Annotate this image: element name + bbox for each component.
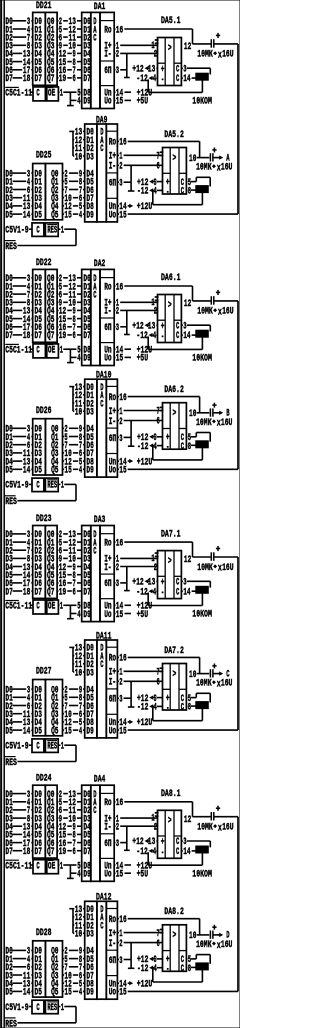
svg-text:OE: OE <box>48 89 55 100</box>
svg-text:-: - <box>161 588 164 599</box>
svg-text:C5C1-11: C5C1-11 <box>5 602 32 613</box>
svg-text:1: 1 <box>60 861 63 872</box>
svg-text:DD23: DD23 <box>36 514 52 525</box>
svg-text:3: 3 <box>119 956 122 967</box>
svg-text:6: 6 <box>73 587 76 598</box>
svg-text:>: > <box>168 43 172 54</box>
svg-text:19: 19 <box>59 587 66 598</box>
svg-text:C: C <box>36 481 39 492</box>
svg-text:16U: 16U <box>222 50 234 61</box>
svg-text:Q5: Q5 <box>51 726 58 737</box>
svg-text:3: 3 <box>116 579 119 590</box>
svg-text:4: 4 <box>79 726 82 737</box>
svg-text:+12U: +12U <box>137 202 153 213</box>
svg-text:C: C <box>181 187 184 198</box>
svg-text:4: 4 <box>79 210 82 221</box>
svg-text:Ro: Ro <box>109 393 116 404</box>
svg-text:D9: D9 <box>83 610 90 621</box>
svg-text:D3: D3 <box>86 408 93 419</box>
svg-text:Q5: Q5 <box>51 466 58 477</box>
svg-text:DA7.1: DA7.1 <box>161 529 181 540</box>
svg-text:10КОМ: 10КОМ <box>192 97 212 108</box>
svg-text:C: C <box>36 602 39 613</box>
svg-text:Q5: Q5 <box>51 988 58 999</box>
svg-text:2: 2 <box>154 307 157 318</box>
svg-text:8: 8 <box>188 703 191 714</box>
svg-text:D7: D7 <box>35 847 42 858</box>
svg-text:10: 10 <box>75 152 82 163</box>
svg-text:12: 12 <box>184 299 191 310</box>
svg-text:I-: I- <box>104 823 111 834</box>
svg-text:4: 4 <box>154 703 157 714</box>
svg-text:3: 3 <box>116 839 119 850</box>
svg-text:16U: 16U <box>222 563 234 574</box>
svg-text:Q7: Q7 <box>47 74 54 85</box>
svg-text:10МК: 10МК <box>196 418 212 429</box>
svg-text:14: 14 <box>23 988 30 999</box>
svg-text:D7: D7 <box>83 331 90 342</box>
svg-text:10МК: 10МК <box>196 679 212 690</box>
svg-text:8: 8 <box>188 442 191 453</box>
svg-text:DD21: DD21 <box>36 1 52 12</box>
svg-text:16: 16 <box>119 654 126 665</box>
svg-text:4: 4 <box>153 587 156 598</box>
svg-text:Q7: Q7 <box>47 331 54 342</box>
svg-text:OE: OE <box>48 861 55 872</box>
svg-text:C: C <box>93 547 96 558</box>
svg-text:8: 8 <box>188 964 191 975</box>
svg-text:2: 2 <box>154 563 157 574</box>
svg-text:2: 2 <box>119 678 122 689</box>
svg-text:15: 15 <box>116 354 123 365</box>
svg-text:>: > <box>173 669 177 680</box>
svg-text:DA6.2: DA6.2 <box>164 385 184 396</box>
svg-text:6: 6 <box>73 74 76 85</box>
svg-text:-12: -12 <box>137 442 148 453</box>
svg-text:6П: 6П <box>104 66 111 77</box>
svg-text:6П: 6П <box>109 179 116 190</box>
svg-text:D9: D9 <box>86 210 93 221</box>
svg-text:C: C <box>100 399 103 410</box>
svg-text:D5: D5 <box>5 988 12 999</box>
svg-text:19: 19 <box>59 847 66 858</box>
svg-text:15: 15 <box>116 610 123 621</box>
svg-text:>: > <box>173 931 177 942</box>
svg-text:DA8.1: DA8.1 <box>161 789 181 800</box>
svg-text:RES: RES <box>47 742 57 753</box>
svg-text:6П: 6П <box>104 839 111 850</box>
svg-text:16U: 16U <box>222 823 234 834</box>
svg-text:-: - <box>161 848 164 859</box>
svg-text:4: 4 <box>77 610 80 621</box>
svg-text:10: 10 <box>75 668 82 679</box>
svg-text:3: 3 <box>116 323 119 334</box>
svg-text:+12U: +12U <box>137 457 153 468</box>
svg-text:C: C <box>93 290 96 301</box>
svg-text:2: 2 <box>116 823 119 834</box>
svg-text:I-: I- <box>104 563 111 574</box>
svg-text:Uo: Uo <box>104 97 111 108</box>
svg-text:I-: I- <box>109 162 116 173</box>
svg-text:10МК: 10МК <box>197 563 213 574</box>
svg-text:C: C <box>100 921 103 932</box>
svg-text:DA5.2: DA5.2 <box>164 130 184 141</box>
svg-text:4: 4 <box>77 354 80 365</box>
svg-text:-: - <box>166 443 169 454</box>
svg-text:D5: D5 <box>35 988 42 999</box>
svg-text:DA3: DA3 <box>94 515 105 526</box>
svg-text:-12: -12 <box>136 587 147 598</box>
svg-text:2: 2 <box>119 162 122 173</box>
svg-text:14: 14 <box>23 726 30 737</box>
svg-text:D9: D9 <box>83 870 90 881</box>
svg-text:2: 2 <box>116 307 119 318</box>
svg-text:D5: D5 <box>5 466 12 477</box>
svg-text:D3: D3 <box>86 668 93 679</box>
svg-text:>: > <box>168 816 172 827</box>
svg-text:4: 4 <box>154 964 157 975</box>
svg-text:10МК: 10МК <box>197 307 213 318</box>
svg-text:C: C <box>93 806 96 817</box>
svg-text:15: 15 <box>119 726 126 737</box>
svg-text:C5V1-9: C5V1-9 <box>5 481 28 492</box>
svg-text:10МК: 10МК <box>196 940 212 951</box>
svg-text:14: 14 <box>23 466 30 477</box>
svg-text:2: 2 <box>116 563 119 574</box>
svg-text:Q7: Q7 <box>47 847 54 858</box>
svg-text:19: 19 <box>59 331 66 342</box>
svg-text:D7: D7 <box>35 331 42 342</box>
svg-text:6П: 6П <box>104 579 111 590</box>
svg-text:3: 3 <box>119 179 122 190</box>
svg-text:DD27: DD27 <box>36 667 52 678</box>
svg-text:10МК: 10МК <box>196 163 212 174</box>
svg-text:6: 6 <box>73 331 76 342</box>
svg-text:16: 16 <box>116 538 123 549</box>
svg-text:>: > <box>173 153 177 164</box>
svg-text:-12: -12 <box>137 964 148 975</box>
svg-text:DD26: DD26 <box>36 406 52 417</box>
svg-text:DA2: DA2 <box>94 259 105 270</box>
svg-text:C: C <box>176 847 179 858</box>
svg-text:C: C <box>100 144 103 155</box>
svg-text:4: 4 <box>153 331 156 342</box>
svg-text:>: > <box>168 556 172 567</box>
svg-text:15: 15 <box>116 97 123 108</box>
svg-text:C: C <box>176 587 179 598</box>
svg-text:16U: 16U <box>222 307 234 318</box>
svg-text:C: C <box>36 1003 39 1014</box>
svg-text:I-: I- <box>104 50 111 61</box>
svg-text:RES: RES <box>5 242 17 253</box>
svg-text:10МК: 10МК <box>197 50 213 61</box>
svg-text:10: 10 <box>75 930 82 941</box>
svg-text:C: C <box>36 742 39 753</box>
svg-text:10КОМ: 10КОМ <box>192 610 212 621</box>
svg-text:C5V1-9: C5V1-9 <box>5 1003 28 1014</box>
svg-text:-: - <box>161 75 164 86</box>
svg-text:C: C <box>93 33 96 44</box>
svg-text:RES: RES <box>5 1019 17 1028</box>
svg-text:Uo: Uo <box>104 870 111 881</box>
svg-text:15: 15 <box>119 466 126 477</box>
svg-text:14: 14 <box>183 847 190 858</box>
svg-text:2: 2 <box>119 939 122 950</box>
svg-text:Ro: Ro <box>104 538 111 549</box>
svg-text:12: 12 <box>184 555 191 566</box>
svg-text:12: 12 <box>184 42 191 53</box>
svg-text:D7: D7 <box>35 74 42 85</box>
svg-text:D9: D9 <box>86 726 93 737</box>
svg-text:6П: 6П <box>109 695 116 706</box>
svg-text:16: 16 <box>119 393 126 404</box>
svg-text:10КОМ: 10КОМ <box>192 869 212 880</box>
svg-text:16: 16 <box>116 282 123 293</box>
svg-text:-12: -12 <box>136 74 147 85</box>
svg-text:8: 8 <box>188 187 191 198</box>
svg-text:1: 1 <box>60 89 63 100</box>
svg-text:I-: I- <box>104 307 111 318</box>
svg-text:>: > <box>168 300 172 311</box>
svg-text:15: 15 <box>116 870 123 881</box>
svg-text:3: 3 <box>119 695 122 706</box>
svg-text:16U: 16U <box>221 163 233 174</box>
svg-text:-12: -12 <box>137 703 148 714</box>
svg-text:1: 1 <box>61 481 64 492</box>
svg-text:Uo: Uo <box>109 726 116 737</box>
svg-text:+5U: +5U <box>137 97 148 108</box>
svg-text:Uo: Uo <box>104 354 111 365</box>
svg-text:19: 19 <box>59 74 66 85</box>
svg-text:Uo: Uo <box>104 610 111 621</box>
svg-text:+5U: +5U <box>137 870 148 881</box>
svg-text:Uo: Uo <box>109 988 116 999</box>
svg-text:-12: -12 <box>137 187 148 198</box>
svg-text:18: 18 <box>23 74 30 85</box>
svg-text:RES: RES <box>47 1003 57 1014</box>
svg-text:Ro: Ro <box>109 915 116 926</box>
svg-text:D7: D7 <box>5 74 12 85</box>
svg-text:18: 18 <box>23 847 30 858</box>
svg-text:D3: D3 <box>86 930 93 941</box>
svg-text:4: 4 <box>154 442 157 453</box>
svg-text:16U: 16U <box>221 418 233 429</box>
svg-text:DD24: DD24 <box>36 774 52 785</box>
svg-text:12: 12 <box>184 815 191 826</box>
svg-text:2: 2 <box>116 50 119 61</box>
svg-text:14: 14 <box>183 74 190 85</box>
svg-text:14: 14 <box>23 210 30 221</box>
svg-text:1: 1 <box>60 346 63 357</box>
svg-text:15: 15 <box>64 210 71 221</box>
svg-text:16: 16 <box>116 25 123 36</box>
svg-text:10КОМ: 10КОМ <box>192 354 212 365</box>
svg-text:16U: 16U <box>221 940 233 951</box>
svg-text:14: 14 <box>183 331 190 342</box>
svg-text:18: 18 <box>23 587 30 598</box>
svg-text:I-: I- <box>109 678 116 689</box>
svg-text:6П: 6П <box>109 434 116 445</box>
svg-text:Uo: Uo <box>109 210 116 221</box>
svg-text:15: 15 <box>64 466 71 477</box>
svg-text:Ro: Ro <box>109 654 116 665</box>
svg-text:16: 16 <box>116 798 123 809</box>
svg-text:2: 2 <box>154 50 157 61</box>
svg-text:-: - <box>166 703 169 714</box>
svg-text:D9: D9 <box>86 988 93 999</box>
svg-text:-: - <box>166 187 169 198</box>
svg-text:D9: D9 <box>83 354 90 365</box>
svg-text:DA6.1: DA6.1 <box>161 273 181 284</box>
svg-text:1: 1 <box>60 602 63 613</box>
svg-text:C: C <box>181 442 184 453</box>
svg-text:Ro: Ro <box>109 138 116 149</box>
svg-text:15: 15 <box>64 726 71 737</box>
svg-text:>: > <box>173 409 177 420</box>
svg-text:Ro: Ro <box>104 798 111 809</box>
svg-text:16: 16 <box>119 138 126 149</box>
svg-text:C5C1-11: C5C1-11 <box>5 346 32 357</box>
svg-text:18: 18 <box>23 331 30 342</box>
svg-text:6: 6 <box>157 417 160 428</box>
svg-text:C: C <box>36 226 39 237</box>
svg-text:D5: D5 <box>35 466 42 477</box>
svg-text:DD22: DD22 <box>36 258 52 269</box>
svg-text:+5U: +5U <box>137 354 148 365</box>
svg-text:6: 6 <box>157 162 160 173</box>
svg-text:+5U: +5U <box>137 610 148 621</box>
svg-text:+12U: +12U <box>137 718 153 729</box>
svg-text:6П: 6П <box>109 956 116 967</box>
svg-text:6: 6 <box>157 939 160 950</box>
svg-text:D5: D5 <box>35 210 42 221</box>
svg-text:C: C <box>36 346 39 357</box>
svg-text:16: 16 <box>119 915 126 926</box>
svg-text:D9: D9 <box>86 466 93 477</box>
svg-text:Q5: Q5 <box>51 210 58 221</box>
svg-text:Q7: Q7 <box>47 587 54 598</box>
svg-text:D7: D7 <box>5 587 12 598</box>
svg-text:4: 4 <box>154 187 157 198</box>
svg-text:D5: D5 <box>35 726 42 737</box>
svg-text:D5: D5 <box>5 210 12 221</box>
svg-text:10: 10 <box>75 408 82 419</box>
svg-text:C: C <box>100 660 103 671</box>
svg-text:2: 2 <box>119 417 122 428</box>
svg-text:D7: D7 <box>83 587 90 598</box>
svg-text:15: 15 <box>119 210 126 221</box>
svg-text:14: 14 <box>183 587 190 598</box>
svg-text:DA5.1: DA5.1 <box>161 16 181 27</box>
svg-text:DA1: DA1 <box>94 2 105 13</box>
svg-text:RES: RES <box>47 226 57 237</box>
svg-text:-12: -12 <box>136 331 147 342</box>
svg-text:D7: D7 <box>83 74 90 85</box>
svg-text:4: 4 <box>153 847 156 858</box>
svg-text:C: C <box>181 964 184 975</box>
svg-text:C5C1-11: C5C1-11 <box>5 89 32 100</box>
svg-text:-12: -12 <box>136 847 147 858</box>
svg-text:OE: OE <box>48 602 55 613</box>
svg-text:I-: I- <box>109 417 116 428</box>
svg-text:1: 1 <box>61 1003 64 1014</box>
svg-text:-: - <box>166 965 169 976</box>
svg-text:15: 15 <box>64 988 71 999</box>
svg-text:OE: OE <box>48 346 55 357</box>
svg-text:3: 3 <box>116 66 119 77</box>
svg-text:I-: I- <box>109 939 116 950</box>
svg-text:D5: D5 <box>5 726 12 737</box>
svg-text:-: - <box>161 332 164 343</box>
svg-text:3: 3 <box>119 434 122 445</box>
svg-text:D7: D7 <box>5 331 12 342</box>
svg-text:DD25: DD25 <box>36 151 52 162</box>
svg-text:RES: RES <box>5 758 17 769</box>
svg-text:16U: 16U <box>221 679 233 690</box>
svg-text:Ro: Ro <box>104 282 111 293</box>
svg-text:4: 4 <box>79 988 82 999</box>
svg-text:+12U: +12U <box>137 980 153 991</box>
svg-text:6: 6 <box>73 847 76 858</box>
svg-text:4: 4 <box>79 466 82 477</box>
svg-text:DA7.2: DA7.2 <box>164 646 184 657</box>
svg-text:D7: D7 <box>83 847 90 858</box>
svg-text:D3: D3 <box>86 152 93 163</box>
svg-text:2: 2 <box>154 823 157 834</box>
svg-text:1: 1 <box>61 226 64 237</box>
svg-text:6П: 6П <box>104 323 111 334</box>
svg-text:C: C <box>36 89 39 100</box>
svg-text:C5V1-9: C5V1-9 <box>5 742 28 753</box>
svg-text:D7: D7 <box>35 587 42 598</box>
svg-text:Ro: Ro <box>104 25 111 36</box>
svg-text:6: 6 <box>157 678 160 689</box>
svg-text:15: 15 <box>119 988 126 999</box>
svg-text:Uo: Uo <box>109 466 116 477</box>
svg-text:C5V1-9: C5V1-9 <box>5 226 28 237</box>
svg-text:DA4: DA4 <box>94 775 105 786</box>
svg-text:C: C <box>36 861 39 872</box>
svg-text:C5C1-11: C5C1-11 <box>5 861 32 872</box>
svg-text:C: C <box>181 703 184 714</box>
svg-text:DD28: DD28 <box>36 928 52 939</box>
svg-text:4: 4 <box>77 870 80 881</box>
svg-text:1: 1 <box>61 742 64 753</box>
svg-text:DA8.2: DA8.2 <box>164 907 184 918</box>
svg-text:D7: D7 <box>5 847 12 858</box>
svg-text:4: 4 <box>77 97 80 108</box>
svg-text:4: 4 <box>153 74 156 85</box>
svg-text:10МК: 10МК <box>197 823 213 834</box>
svg-text:RES: RES <box>5 497 17 508</box>
svg-text:RES: RES <box>47 481 57 492</box>
svg-text:C: C <box>176 74 179 85</box>
svg-text:C: C <box>176 331 179 342</box>
svg-text:D9: D9 <box>83 97 90 108</box>
